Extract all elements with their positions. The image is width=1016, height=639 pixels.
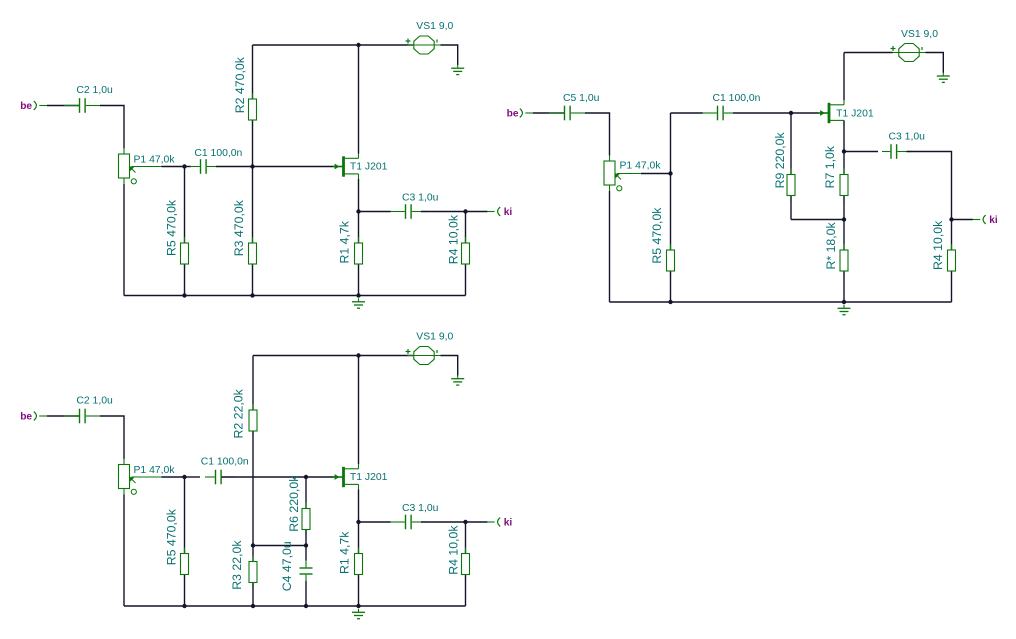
circuit3 wire node C to C3 <box>359 521 391 523</box>
circuit1 label R2 <box>233 56 247 113</box>
circuit3 output port ki <box>487 517 512 528</box>
circuit1 label T1 <box>350 161 388 172</box>
circuit3 wire node A to C1 <box>185 476 201 478</box>
circuit2 junction R5 rail <box>668 300 672 304</box>
circuit3 wire link R3-C4 <box>253 545 306 547</box>
circuit3 label R1 <box>337 531 351 574</box>
svg-text:R5 470,0k: R5 470,0k <box>650 207 664 264</box>
circuit3 label R6 <box>287 475 301 532</box>
circuit1 resistor R3 470,0k <box>249 167 257 296</box>
circuit3 label R2 <box>232 388 246 438</box>
svg-text:ki: ki <box>504 207 513 218</box>
circuit1 label P1 <box>134 155 176 166</box>
circuit1 wire P1 bottom to rail <box>123 184 125 296</box>
circuit2 label T1 <box>836 109 874 120</box>
svg-text:C1 100,0n: C1 100,0n <box>194 148 242 159</box>
circuit3 junction node D <box>463 520 467 524</box>
circuit3 label C1 <box>201 457 249 468</box>
circuit1 wire C1 to node B <box>216 166 253 168</box>
circuit3 capacitor C3 1,0u <box>391 515 427 530</box>
circuit1 label R4 <box>446 214 460 264</box>
svg-text:C1 100,0n: C1 100,0n <box>201 457 249 468</box>
svg-text:C2 1,0u: C2 1,0u <box>76 396 113 407</box>
circuit3 wire P1 wiper to node A <box>162 476 185 478</box>
svg-text:VS1 9,0: VS1 9,0 <box>416 332 453 343</box>
circuit1 node B junction <box>250 164 254 168</box>
circuit3 wire bottom rail <box>124 605 466 607</box>
circuit1 ground at VS1 <box>451 65 464 75</box>
svg-text:R1 4,7k: R1 4,7k <box>337 531 351 574</box>
circuit1 resistor R5 470,0k <box>181 167 189 296</box>
circuit2 label C5 <box>563 93 600 104</box>
circuit3 node B junction <box>304 475 308 479</box>
circuit1 resistor R4 10,0k <box>462 212 470 296</box>
circuit3 label C2 <box>76 396 113 407</box>
circuit1 resistor R1 4,7k <box>355 212 363 296</box>
circuit3 junction C4 bottom rail <box>304 604 308 608</box>
circuit2 junction node A <box>668 171 672 175</box>
circuit2 capacitor C3 1,0u <box>882 144 912 159</box>
circuit1 label C3 <box>402 193 439 204</box>
circuit1 transistor T1 J201 <box>333 153 359 180</box>
circuit1 junction node D <box>463 209 467 213</box>
circuit3 wire be to C2 <box>47 415 79 417</box>
circuit3 ground at source divider <box>352 609 365 619</box>
circuit3 node A junction <box>182 475 186 479</box>
circuit2 junction node G <box>949 217 953 221</box>
circuit2 wire P1 wiper to node A <box>641 173 671 175</box>
svg-text:C3 1,0u: C3 1,0u <box>889 131 926 142</box>
circuit3 potentiometer P1 47,0k <box>119 459 162 495</box>
circuit2 wire P1 bottom to rail <box>609 191 611 302</box>
svg-text:R4 10,0k: R4 10,0k <box>446 214 460 264</box>
circuit2 capacitor C1 100,0n <box>702 106 733 121</box>
circuit1 wire P1 wiper to node A <box>162 166 185 168</box>
svg-text:be: be <box>20 101 32 112</box>
circuit1 wire node A to C1 <box>185 166 192 168</box>
svg-text:be: be <box>20 411 32 422</box>
circuit1 capacitor C3 1,0u <box>391 204 427 219</box>
circuit2 potentiometer P1 47,0k <box>604 155 647 191</box>
circuit2 label C3 <box>889 131 926 142</box>
svg-text:C4 47,0u: C4 47,0u <box>280 541 294 591</box>
circuit1 wire node C to C3 <box>359 211 391 213</box>
svg-text:R7 1,0k: R7 1,0k <box>823 145 837 188</box>
svg-text:P1 47,0k: P1 47,0k <box>134 155 176 166</box>
circuit1 resistor R2 470,0k <box>249 45 257 167</box>
circuit3 wire drain to rail <box>358 356 360 465</box>
circuit3 wire top rail <box>253 355 413 357</box>
svg-text:R2 22,0k: R2 22,0k <box>232 388 246 438</box>
circuit1 wire bottom rail <box>124 295 466 297</box>
circuit2 ground at rail <box>838 305 851 315</box>
circuit2 label P1 <box>620 161 662 172</box>
svg-text:C3 1,0u: C3 1,0u <box>402 193 439 204</box>
circuit1 label VS1 <box>416 21 453 32</box>
svg-text:VS1 9,0: VS1 9,0 <box>416 21 453 32</box>
circuit3 wire C1 to node B <box>222 476 307 478</box>
circuit2 label C1 <box>713 93 761 104</box>
circuit1 wire C2 to P1 <box>100 106 124 149</box>
svg-text:ki: ki <box>504 517 513 528</box>
circuit1 node A junction <box>182 164 186 168</box>
circuit3 junction R5 rail <box>182 604 186 608</box>
svg-text:T1 J201: T1 J201 <box>350 472 388 483</box>
circuit3 junction ground rail <box>356 604 360 608</box>
circuit3 resistor R3 22,0k <box>249 546 257 607</box>
circuit2 wire drain up <box>843 53 845 101</box>
circuit2 transistor T1 J201 <box>819 100 845 127</box>
svg-text:be: be <box>507 108 519 119</box>
svg-text:C3 1,0u: C3 1,0u <box>402 503 439 514</box>
circuit1 label C2 <box>76 85 113 96</box>
circuit3 label R3 <box>230 540 244 590</box>
circuit3 capacitor C1 100,0n <box>205 470 236 485</box>
circuit3 wire VS1 to ground <box>441 356 458 376</box>
svg-text:T1 J201: T1 J201 <box>836 109 874 120</box>
circuit1 label R3 <box>232 199 246 256</box>
circuit1 wire node B to gate <box>253 166 334 168</box>
circuit3 voltage source VS1 9,0 <box>406 347 441 365</box>
circuit3 label T1 <box>350 472 388 483</box>
circuit2 wire C5 to P1 <box>585 113 610 156</box>
svg-text:ki: ki <box>989 215 998 226</box>
svg-text:T1 J201: T1 J201 <box>350 161 388 172</box>
circuit3 wire source to node C <box>358 490 360 523</box>
circuit3 resistor R5 470,0k <box>181 477 189 606</box>
circuit3 wire P1 bottom to rail <box>123 495 125 607</box>
circuit2 wire node F to C3 <box>844 151 878 153</box>
circuit2 wire VS1 to ground <box>926 53 944 73</box>
svg-text:R3 470,0k: R3 470,0k <box>232 199 246 256</box>
circuit3 label C4 <box>280 541 294 591</box>
circuit3 label R5 <box>165 508 179 565</box>
svg-text:R5 470,0k: R5 470,0k <box>165 508 179 565</box>
circuit2 label VS1 <box>901 29 938 40</box>
circuit1 junction ground rail <box>356 293 360 297</box>
svg-text:R* 18,0k: R* 18,0k <box>824 221 838 269</box>
circuit2 ground at VS1 <box>937 73 950 83</box>
circuit2 junction node B <box>789 111 793 115</box>
circuit3 junction drain rail <box>356 353 360 357</box>
circuit1 wire drain to rail <box>358 45 360 154</box>
circuit1 wire source to node C <box>358 179 360 212</box>
svg-text:R3 22,0k: R3 22,0k <box>230 540 244 590</box>
circuit3 label R4 <box>446 525 460 575</box>
circuit1 wire be to C2 <box>47 105 79 107</box>
circuit2 wire node G to ki <box>952 219 973 221</box>
circuit3 junction C4 top <box>304 543 308 547</box>
circuit3 wire node B to gate <box>306 476 334 478</box>
svg-text:R9 220,0k: R9 220,0k <box>773 131 787 188</box>
circuit2 junction ground rail <box>842 300 846 304</box>
circuit2 resistor R9 220,0k <box>787 113 795 220</box>
circuit1 wire C3 to node D <box>421 211 466 213</box>
circuit1 junction node C <box>356 209 360 213</box>
circuit2 wire R9 to node E <box>791 219 844 221</box>
circuit3 junction R3 top <box>251 543 255 547</box>
circuit1 junction R5 rail <box>182 293 186 297</box>
circuit2 input port be <box>507 108 533 119</box>
circuit2 wire C3 to node G <box>907 152 952 220</box>
circuit3 transistor T1 J201 <box>333 464 359 491</box>
circuit3 ground at VS1 <box>451 375 464 385</box>
circuit2 resistor R4 10,0k <box>948 220 956 303</box>
circuit3 label P1 <box>134 465 176 476</box>
circuit2 capacitor C5 1,0u <box>549 106 585 121</box>
circuit1 wire node D to ki <box>466 211 488 213</box>
svg-text:R6 220,0k: R6 220,0k <box>287 475 301 532</box>
circuit1 label C1 <box>194 148 242 159</box>
circuit2 wire node B to gate <box>791 112 819 114</box>
svg-text:C5 1,0u: C5 1,0u <box>563 93 600 104</box>
svg-text:R4 10,0k: R4 10,0k <box>446 525 460 575</box>
circuit3 resistor R4 10,0k <box>462 522 470 606</box>
svg-text:R2 470,0k: R2 470,0k <box>233 56 247 113</box>
circuit1 label R1 <box>337 220 351 263</box>
circuit2 wire bottom rail <box>610 301 952 303</box>
svg-text:C1 100,0n: C1 100,0n <box>713 93 761 104</box>
svg-text:P1 47,0k: P1 47,0k <box>620 161 662 172</box>
circuit3 input port be <box>20 411 47 422</box>
circuit3 resistor R6 220,0k <box>302 477 310 546</box>
circuit2 output port ki <box>973 215 998 226</box>
circuit3 capacitor C4 47,0u <box>300 546 313 607</box>
svg-text:VS1 9,0: VS1 9,0 <box>901 29 938 40</box>
circuit1 input port be <box>20 101 47 112</box>
circuit3 label C3 <box>402 503 439 514</box>
circuit3 resistor R2 22,0k <box>249 356 257 546</box>
circuit2 label R* <box>824 221 838 269</box>
svg-text:C2 1,0u: C2 1,0u <box>76 85 113 96</box>
circuit2 label R7 <box>823 145 837 188</box>
circuit2 wire source to node F <box>843 121 845 152</box>
circuit2 junction node E <box>842 217 846 221</box>
circuit3 resistor R1 4,7k <box>355 522 363 606</box>
circuit1 wire VS1 to ground <box>441 45 458 65</box>
circuit2 resistor R7 1,0k <box>840 152 848 220</box>
circuit3 wire C2 to P1 <box>100 416 124 459</box>
circuit2 resistor R* 18,0k <box>840 220 848 303</box>
circuit2 wire be to C5 <box>533 112 564 114</box>
circuit2 wire node A up <box>670 113 672 174</box>
circuit2 wire C1 to node B <box>733 112 791 114</box>
circuit3 junction node C <box>356 520 360 524</box>
circuit1 ground at source divider <box>352 298 365 308</box>
circuit1 capacitor C2 1,0u <box>64 98 101 113</box>
circuit3 junction R3 rail <box>251 604 255 608</box>
circuit1 potentiometer P1 47,0k <box>119 148 162 184</box>
circuit1 wire top rail <box>253 44 414 46</box>
circuit1 label R5 <box>165 199 179 256</box>
circuit3 wire C3 to node D <box>421 521 466 523</box>
circuit3 capacitor C2 1,0u <box>64 409 101 424</box>
circuit2 wire top rail <box>844 52 893 54</box>
circuit2 label R5 <box>650 207 664 264</box>
circuit2 label R9 <box>773 131 787 188</box>
circuit2 voltage source VS1 9,0 <box>891 44 926 62</box>
circuit1 capacitor C1 100,0n <box>190 159 216 174</box>
circuit2 label R4 <box>931 220 945 270</box>
circuit2 wire node A to C1 <box>671 112 704 114</box>
circuit2 junction node F <box>842 149 846 153</box>
circuit3 wire node D to ki <box>466 521 488 523</box>
circuit3 label VS1 <box>416 332 453 343</box>
circuit2 resistor R5 470,0k <box>667 174 675 303</box>
svg-text:R4 10,0k: R4 10,0k <box>931 220 945 270</box>
circuit1 output port ki <box>487 207 512 218</box>
circuit1 junction R3 rail <box>250 293 254 297</box>
svg-text:R5 470,0k: R5 470,0k <box>165 199 179 256</box>
svg-text:R1 4,7k: R1 4,7k <box>337 220 351 263</box>
circuit1 junction drain rail <box>356 43 360 47</box>
circuit1 voltage source VS1 9,0 <box>406 36 441 54</box>
svg-text:P1 47,0k: P1 47,0k <box>134 465 176 476</box>
